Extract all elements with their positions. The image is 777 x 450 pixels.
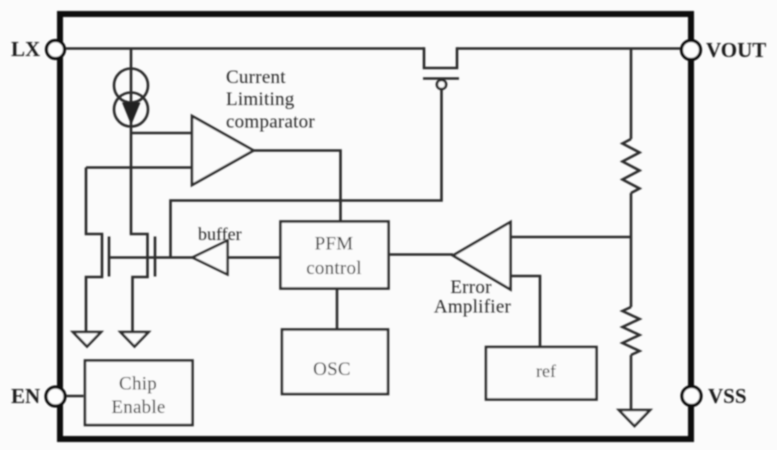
- wire: buffer output to Q2 Q3 gates: [109, 256, 193, 259]
- wire: LX to current source and Q3 drain: [131, 49, 148, 333]
- svg-text:LX: LX: [11, 37, 40, 61]
- svg-text:buffer: buffer: [198, 224, 242, 244]
- svg-text:control: control: [306, 258, 362, 279]
- svg-text:Limiting: Limiting: [226, 89, 295, 110]
- wire: EN pin to Chip Enable: [64, 395, 84, 398]
- wire: current sense to comparator + input: [131, 132, 192, 135]
- ground (under Q2): [73, 332, 101, 347]
- label: Error Amplifier: [434, 277, 512, 318]
- transistor Q2 (NMOS switch, left): [86, 168, 109, 333]
- wire: comparator - input to Q2 drain: [86, 166, 192, 169]
- pin VSS: [682, 387, 701, 406]
- label: Current Limiting comparator: [226, 67, 315, 133]
- wire: PFM control to OSC: [336, 289, 339, 330]
- svg-text:Current: Current: [226, 67, 286, 88]
- resistor R1: [623, 139, 640, 193]
- block: PFM control: [281, 222, 389, 289]
- resistor R2: [623, 307, 640, 355]
- current source I1: [114, 69, 148, 127]
- wire: LX top rail to switch Q1: [64, 47, 424, 50]
- wire: feedback node to error amplifier input: [511, 236, 632, 239]
- wire: R1 to R2 feedback node: [630, 193, 633, 307]
- svg-text:VSS: VSS: [708, 384, 747, 408]
- wire: VOUT rail to divider top: [630, 49, 633, 140]
- chip boundary: [60, 14, 691, 439]
- wire: ref to error amplifier input: [511, 276, 541, 347]
- wire: comparator output to PFM control: [254, 151, 341, 222]
- svg-text:Enable: Enable: [111, 397, 165, 418]
- svg-text:OSC: OSC: [313, 359, 351, 380]
- svg-text:VOUT: VOUT: [706, 38, 766, 62]
- pin LX: [47, 41, 65, 59]
- pin EN: [46, 387, 65, 406]
- svg-text:Amplifier: Amplifier: [434, 297, 512, 318]
- block: OSC: [282, 330, 388, 395]
- transistor Q1 (PMOS pass switch): [423, 47, 459, 89]
- block: Chip Enable: [85, 361, 193, 426]
- svg-text:ref: ref: [536, 361, 556, 381]
- transistor Q3 (NMOS switch, right) gate bar: [154, 237, 157, 277]
- svg-text:comparator: comparator: [226, 112, 315, 133]
- wire: Q1 gate net from buffer: [171, 89, 442, 258]
- svg-text:Chip: Chip: [119, 374, 157, 395]
- wire: error amplifier output to PFM control: [389, 253, 454, 256]
- wire: R2 to ground: [630, 355, 633, 410]
- svg-text:Error: Error: [450, 277, 492, 298]
- wire: Q1 to VOUT rail: [457, 47, 682, 50]
- svg-text:PFM: PFM: [315, 234, 354, 255]
- ground (divider bottom): [619, 410, 650, 426]
- op-amp U1 (Current Limiting comparator): [192, 116, 254, 185]
- wire: PFM control to buffer input: [228, 256, 281, 259]
- svg-text:EN: EN: [11, 384, 40, 408]
- pin VOUT: [682, 41, 701, 60]
- ground (under Q3): [121, 332, 149, 347]
- op-amp U3 (Error Amplifier): [453, 222, 511, 290]
- block: ref: [486, 347, 597, 400]
- buffer U2: [193, 241, 228, 275]
